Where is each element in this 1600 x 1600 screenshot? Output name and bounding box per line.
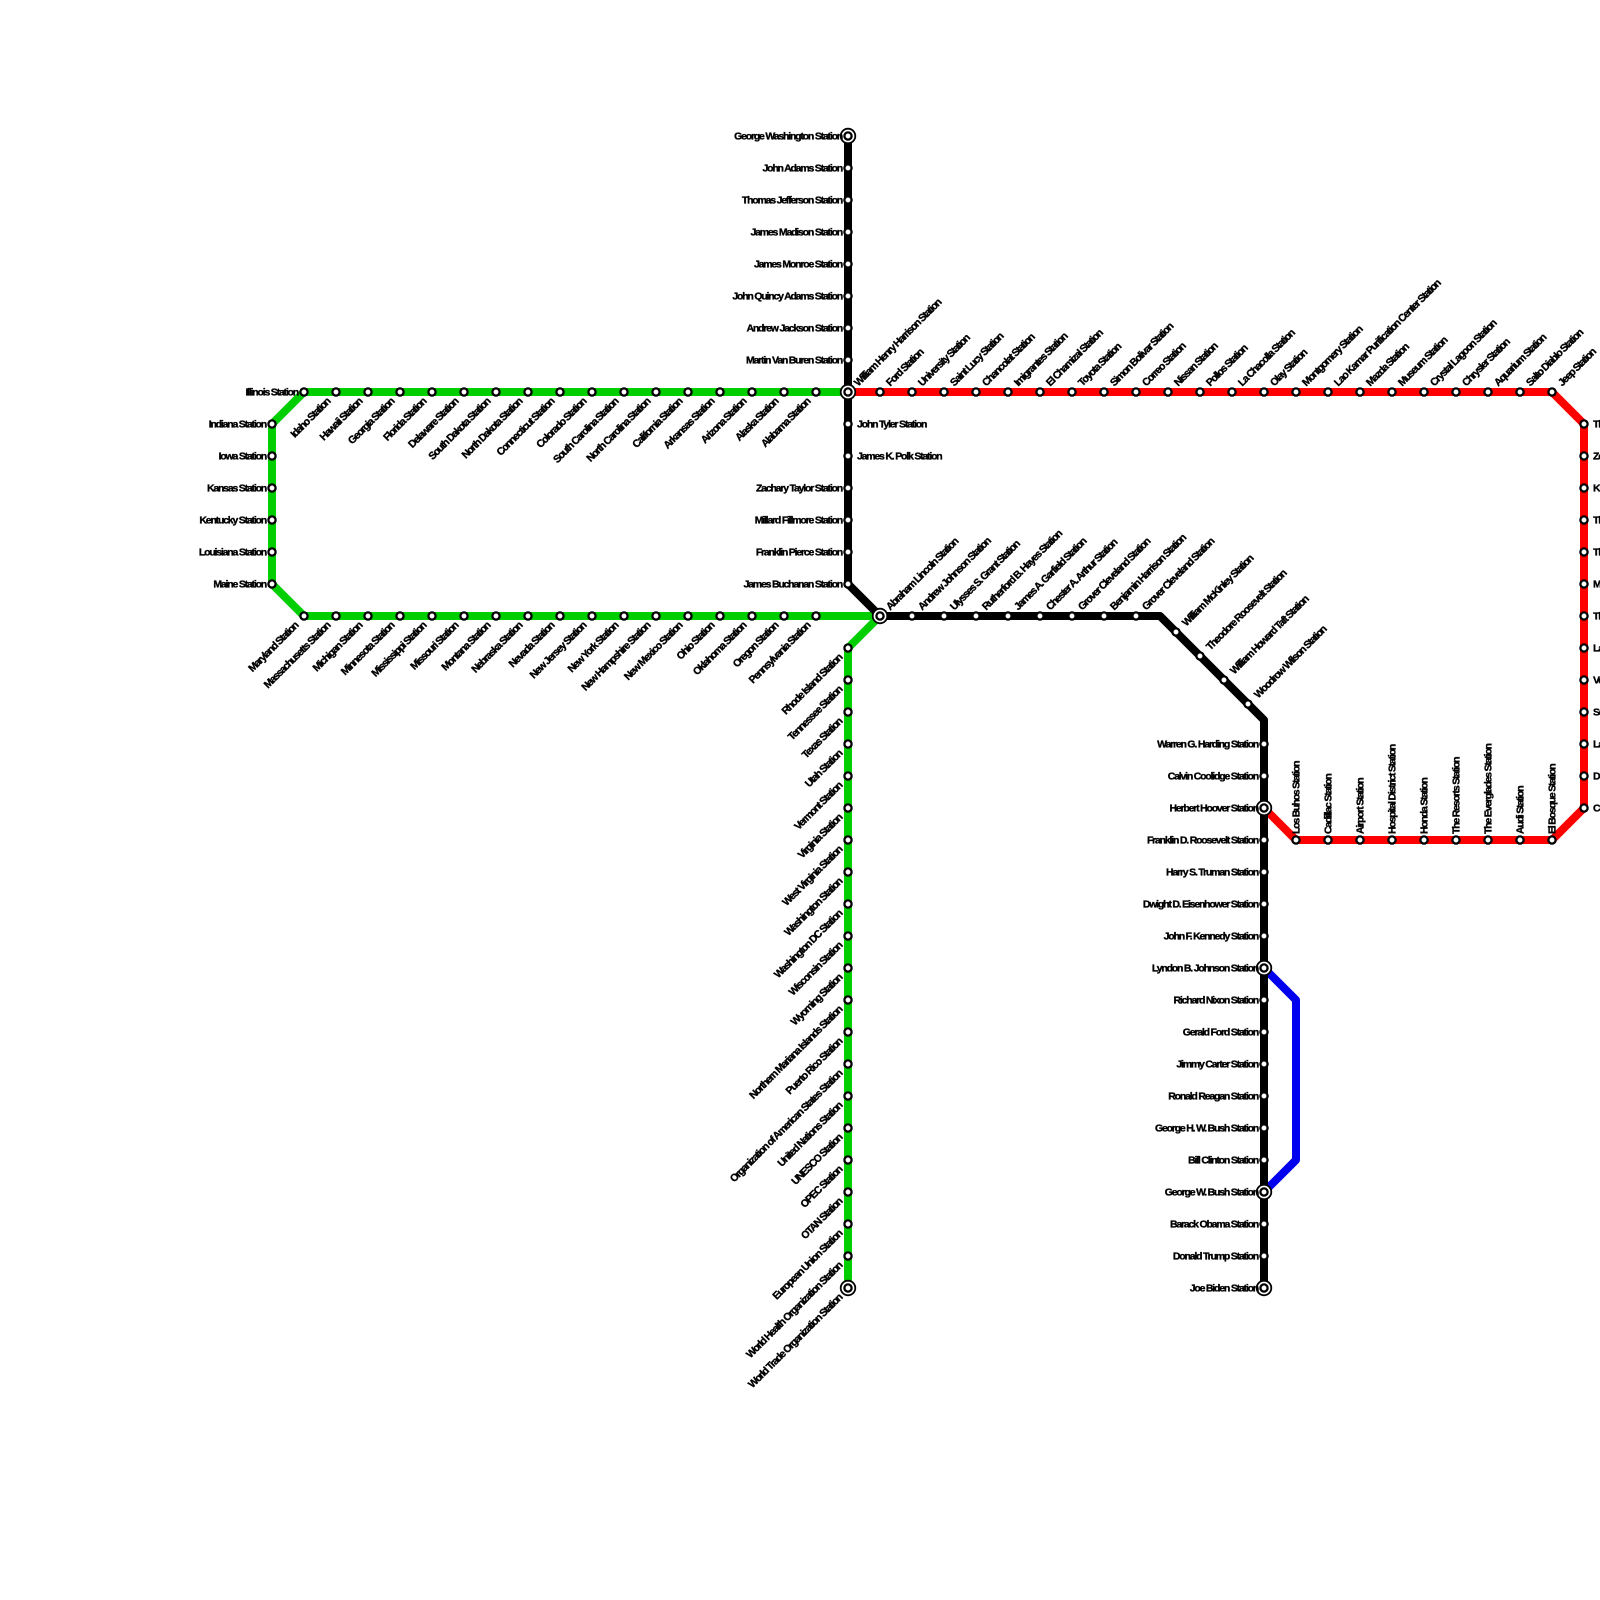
svg-text:Laguna Station: Laguna Station	[1593, 739, 1600, 751]
station New York Station	[620, 612, 627, 619]
station Dwight D. Eisenhower Station	[1260, 900, 1267, 907]
station Harry S. Truman Station	[1260, 868, 1267, 875]
station Massachusetts Station	[332, 612, 339, 619]
svg-text:Honda Station: Honda Station	[1419, 778, 1431, 834]
station Barack Obama Station	[1260, 1220, 1267, 1227]
station Maryland Station	[300, 612, 307, 619]
station Michigan Station	[364, 612, 371, 619]
station West Virginia Station	[844, 836, 851, 843]
station William Howard Taft Station	[1220, 676, 1227, 683]
station Mercado Station	[1580, 580, 1587, 587]
station Rhode Island Station	[844, 644, 851, 651]
station Louisiana Station	[268, 548, 275, 555]
station Pennsylvania Station	[812, 612, 819, 619]
station Chrysler Station	[1452, 388, 1459, 395]
station James Madison Station	[844, 228, 851, 235]
station Laguna Station	[1580, 740, 1587, 747]
svg-text:El Chamizal Station: El Chamizal Station	[1044, 327, 1106, 389]
station Zocalo Station	[1580, 452, 1587, 459]
station Crystal Lagoon Station	[1420, 388, 1427, 395]
svg-text:Louisiana Station: Louisiana Station	[199, 547, 267, 559]
svg-text:Harry S. Truman Station: Harry S. Truman Station	[1166, 867, 1259, 879]
station Tennessee Station	[844, 676, 851, 683]
interchange William Henry Harrison Station	[841, 385, 856, 400]
svg-text:Kansas Station: Kansas Station	[207, 483, 267, 495]
svg-text:The Palms Station: The Palms Station	[1593, 515, 1600, 527]
station Texas Station	[844, 708, 851, 715]
station Mazda Station	[1356, 388, 1363, 395]
svg-text:Lyndon B. Johnson Station: Lyndon B. Johnson Station	[1152, 963, 1259, 975]
station Pollos Station	[1196, 388, 1203, 395]
station Calvin Coolidge Station	[1260, 772, 1267, 779]
station Andrew Johnson Station	[908, 612, 915, 619]
station OTAN Station	[844, 1188, 851, 1195]
svg-text:Millard Fillmore Station: Millard Fillmore Station	[755, 515, 843, 527]
interchange George Washington Station	[841, 129, 856, 144]
svg-text:Donald Trump Station: Donald Trump Station	[1173, 1251, 1259, 1263]
station The Arena Station	[1580, 548, 1587, 555]
svg-text:Illinois Station: Illinois Station	[245, 387, 298, 399]
svg-text:Dorado Station: Dorado Station	[1593, 771, 1600, 783]
svg-text:Thomas Jefferson Station: Thomas Jefferson Station	[742, 195, 843, 207]
station Idaho Station	[332, 388, 339, 395]
station Alabama Station	[812, 388, 819, 395]
station Salto Diablo Station	[1516, 388, 1523, 395]
station California Station	[684, 388, 691, 395]
station Cerrito Station	[1580, 804, 1587, 811]
station New Hampshire Station	[652, 612, 659, 619]
station Correo Station	[1132, 388, 1139, 395]
svg-text:Zachary Taylor Station: Zachary Taylor Station	[756, 483, 843, 495]
blue line (LBJ to G.W. Bush bypass)	[1264, 968, 1296, 1192]
svg-text:Salto Diablo Station: Salto Diablo Station	[1524, 327, 1586, 389]
station Georgia Station	[396, 388, 403, 395]
station Puerto Rico Station	[844, 1028, 851, 1035]
station Imigrantes Station	[1004, 388, 1011, 395]
station Serrano Station	[1580, 708, 1587, 715]
station Warren G. Harding Station	[1260, 740, 1267, 747]
svg-text:Hospital District Station: Hospital District Station	[1387, 744, 1399, 834]
station Dorado Station	[1580, 772, 1587, 779]
station UNESCO Station	[844, 1124, 851, 1131]
station Woodrow Wilson Station	[1244, 700, 1251, 707]
station Lao Kamar Purification Center Station	[1324, 388, 1331, 395]
svg-text:Zocalo Station: Zocalo Station	[1593, 451, 1600, 463]
svg-text:Warren G. Harding Station: Warren G. Harding Station	[1157, 739, 1259, 751]
station Colorado Station	[588, 388, 595, 395]
station Zachary Taylor Station	[844, 484, 851, 491]
svg-text:Puerto Rico Station: Puerto Rico Station	[784, 1035, 846, 1097]
station Jeep Station	[1548, 388, 1555, 395]
station North Carolina Station	[652, 388, 659, 395]
station John Adams Station	[844, 164, 851, 171]
station Oregon Station	[780, 612, 787, 619]
station Ohio Station	[716, 612, 723, 619]
svg-text:Serrano Station: Serrano Station	[1593, 707, 1600, 719]
station The Resorts Station	[1452, 836, 1459, 843]
green line (states loop + international branch)	[272, 392, 880, 1288]
station Minnesota Station	[396, 612, 403, 619]
station Airport Station	[1356, 836, 1363, 843]
station Chester A. Arthur Station	[1036, 612, 1043, 619]
station William McKinley Station	[1172, 628, 1179, 635]
station Toyota Station	[1068, 388, 1075, 395]
station George H. W. Bush Station	[1260, 1124, 1267, 1131]
svg-text:Barack Obama Station: Barack Obama Station	[1170, 1219, 1259, 1231]
svg-text:Andrew Jackson Station: Andrew Jackson Station	[746, 323, 842, 335]
station Hawaii Station	[364, 388, 371, 395]
station Iowa Station	[268, 452, 275, 459]
station Jimmy Carter Station	[1260, 1060, 1267, 1067]
station Kentucky Station	[268, 516, 275, 523]
svg-text:The Canals Station: The Canals Station	[1593, 419, 1600, 431]
station New Jersey Station	[588, 612, 595, 619]
station Chancolat Station	[972, 388, 979, 395]
station La Chacolla Station	[1228, 388, 1235, 395]
station El Chamizal Station	[1036, 388, 1043, 395]
svg-text:George H. W. Bush Station: George H. W. Bush Station	[1155, 1123, 1259, 1135]
svg-text:The Everglades Station: The Everglades Station	[1483, 743, 1495, 834]
station Ulysses S. Grant Station	[940, 612, 947, 619]
svg-text:Jimmy Carter Station: Jimmy Carter Station	[1176, 1059, 1258, 1071]
station Gerald Ford Station	[1260, 1028, 1267, 1035]
svg-text:The Arena Station: The Arena Station	[1593, 547, 1600, 559]
svg-text:Ronald Reagan Station: Ronald Reagan Station	[1168, 1091, 1259, 1103]
station Connecticut Station	[556, 388, 563, 395]
station James Buchanan Station	[844, 580, 851, 587]
station La Paz Station	[1580, 644, 1587, 651]
station Aquarium Station	[1484, 388, 1491, 395]
svg-text:The Resorts Station: The Resorts Station	[1451, 757, 1463, 834]
station Montgomery Station	[1292, 388, 1299, 395]
station John Tyler Station	[844, 420, 851, 427]
svg-text:John Tyler Station: John Tyler Station	[857, 419, 927, 431]
station Andrew Jackson Station	[844, 324, 851, 331]
station Wisconsin Station	[844, 932, 851, 939]
svg-text:Mississippi Station: Mississippi Station	[369, 619, 429, 679]
svg-text:Bill Clinton Station: Bill Clinton Station	[1188, 1155, 1259, 1167]
station Arizona Station	[748, 388, 755, 395]
station Illinois Station	[300, 388, 307, 395]
svg-text:The Forum Station: The Forum Station	[1593, 611, 1600, 623]
station Grover Cleveland Station	[1132, 612, 1139, 619]
station John F. Kennedy Station	[1260, 932, 1267, 939]
svg-text:Calvin Coolidge Station: Calvin Coolidge Station	[1168, 771, 1259, 783]
svg-text:Mercado Station: Mercado Station	[1593, 579, 1600, 591]
station Arkansas Station	[716, 388, 723, 395]
svg-text:James K. Polk Station: James K. Polk Station	[857, 451, 942, 463]
station Volcan Station	[1580, 676, 1587, 683]
station Indiana Station	[268, 420, 275, 427]
svg-text:Franklin Pierce Station: Franklin Pierce Station	[756, 547, 843, 559]
station Virginia Station	[844, 804, 851, 811]
station Wyoming Station	[844, 964, 851, 971]
station Millard Fillmore Station	[844, 516, 851, 523]
station The Palms Station	[1580, 516, 1587, 523]
station Klein Gardens Station	[1580, 484, 1587, 491]
station The Everglades Station	[1484, 836, 1491, 843]
station Northern Mariana Islands Station	[844, 996, 851, 1003]
svg-text:James Buchanan Station: James Buchanan Station	[744, 579, 843, 591]
station Franklin Pierce Station	[844, 548, 851, 555]
station South Dakota Station	[492, 388, 499, 395]
svg-text:Herbert Hoover Station: Herbert Hoover Station	[1169, 803, 1258, 815]
svg-text:James Madison Station: James Madison Station	[751, 227, 843, 239]
svg-text:Dwight D. Eisenhower Station: Dwight D. Eisenhower Station	[1143, 899, 1259, 911]
station Museum Station	[1388, 388, 1395, 395]
svg-text:George W. Bush Station: George W. Bush Station	[1165, 1187, 1259, 1199]
station Ford Station	[876, 388, 883, 395]
station OPEC Station	[844, 1156, 851, 1163]
station Ronald Reagan Station	[1260, 1092, 1267, 1099]
station Benjamin Harrison Station	[1100, 612, 1107, 619]
svg-text:John Adams Station: John Adams Station	[762, 163, 842, 175]
station El Bosque Station	[1548, 836, 1555, 843]
interchange Abraham Lincoln Station	[873, 609, 888, 624]
station John Quincy Adams Station	[844, 292, 851, 299]
svg-text:John F. Kennedy Station: John F. Kennedy Station	[1164, 931, 1259, 943]
svg-text:Klein Gardens Station: Klein Gardens Station	[1593, 483, 1600, 495]
station Los Buhos Station	[1292, 836, 1299, 843]
interchange George W. Bush Station	[1257, 1185, 1272, 1200]
station The Forum Station	[1580, 612, 1587, 619]
station Martin Van Buren Station	[844, 356, 851, 363]
station University Station	[908, 388, 915, 395]
svg-text:Audi Station: Audi Station	[1515, 786, 1527, 834]
station Hospital District Station	[1388, 836, 1395, 843]
svg-text:Washington Station: Washington Station	[782, 875, 845, 938]
svg-text:James Monroe Station: James Monroe Station	[754, 259, 843, 271]
station The Canals Station	[1580, 420, 1587, 427]
svg-text:John Quincy Adams Station: John Quincy Adams Station	[732, 291, 842, 303]
svg-text:Gerald Ford Station: Gerald Ford Station	[1183, 1027, 1259, 1039]
svg-text:Pennsylvania Station: Pennsylvania Station	[747, 619, 814, 686]
station Saint Lucy Station	[940, 388, 947, 395]
station Donald Trump Station	[1260, 1252, 1267, 1259]
svg-text:El Bosque Station: El Bosque Station	[1547, 764, 1559, 834]
station Oklahoma Station	[748, 612, 755, 619]
interchange Joe Biden Station	[1257, 1281, 1272, 1296]
svg-text:La Chacolla Station: La Chacolla Station	[1236, 327, 1298, 389]
station North Dakota Station	[524, 388, 531, 395]
black line (presidents)	[848, 136, 1264, 1288]
station Montana Station	[492, 612, 499, 619]
station Audi Station	[1516, 836, 1523, 843]
svg-text:Martin Van Buren Station: Martin Van Buren Station	[746, 355, 843, 367]
station Nebraska Station	[524, 612, 531, 619]
station Olay Station	[1260, 388, 1267, 395]
station Maine Station	[268, 580, 275, 587]
station Honda Station	[1420, 836, 1427, 843]
station Utah Station	[844, 740, 851, 747]
station Nissan Station	[1164, 388, 1171, 395]
station European Union Station	[844, 1220, 851, 1227]
svg-text:Joe Biden Station: Joe Biden Station	[1190, 1283, 1259, 1295]
svg-text:George Washington Station: George Washington Station	[734, 131, 843, 143]
station World Health Organization Station	[844, 1252, 851, 1259]
svg-text:Kentucky Station: Kentucky Station	[199, 515, 266, 527]
svg-text:Theodore Roosevelt Station: Theodore Roosevelt Station	[1204, 567, 1290, 653]
interchange World Trade Organization Station	[841, 1281, 856, 1296]
red line (east loop)	[848, 392, 1584, 840]
svg-text:Richard Nixon Station: Richard Nixon Station	[1174, 995, 1259, 1007]
station Mississippi Station	[428, 612, 435, 619]
station James Monroe Station	[844, 260, 851, 267]
station United Nations Station	[844, 1092, 851, 1099]
svg-text:La Paz Station: La Paz Station	[1593, 643, 1600, 655]
station Alaska Station	[780, 388, 787, 395]
station Rutherford B. Hayes Station	[972, 612, 979, 619]
station Missouri Station	[460, 612, 467, 619]
station New Mexico Station	[684, 612, 691, 619]
svg-text:New Jersey Station: New Jersey Station	[528, 619, 590, 681]
station Thomas Jefferson Station	[844, 196, 851, 203]
svg-text:Connecticut Station: Connecticut Station	[494, 395, 557, 458]
svg-text:Cadillac Station: Cadillac Station	[1323, 774, 1335, 834]
station Florida Station	[428, 388, 435, 395]
svg-text:Volcan Station: Volcan Station	[1593, 675, 1600, 687]
station Delaware Station	[460, 388, 467, 395]
station Nevada Station	[556, 612, 563, 619]
station James K. Polk Station	[844, 452, 851, 459]
svg-text:Maine Station: Maine Station	[213, 579, 266, 591]
station Washington DC Station	[844, 900, 851, 907]
station James A. Garfield Station	[1004, 612, 1011, 619]
svg-text:William Howard Taft Station: William Howard Taft Station	[1228, 593, 1312, 677]
svg-text:Indiana Station: Indiana Station	[209, 419, 267, 431]
svg-text:Franklin D. Roosevelt Station: Franklin D. Roosevelt Station	[1147, 835, 1259, 847]
svg-text:Airport Station: Airport Station	[1355, 778, 1367, 834]
station Franklin D. Roosevelt Station	[1260, 836, 1267, 843]
svg-text:Cerrito Station: Cerrito Station	[1593, 803, 1600, 815]
svg-text:Iowa Station: Iowa Station	[219, 451, 267, 463]
station Richard Nixon Station	[1260, 996, 1267, 1003]
station Theodore Roosevelt Station	[1196, 652, 1203, 659]
station Kansas Station	[268, 484, 275, 491]
svg-text:Los Buhos Station: Los Buhos Station	[1291, 761, 1303, 834]
station Simon Bolivar Station	[1100, 388, 1107, 395]
station Vermont Station	[844, 772, 851, 779]
station Organization of American States Station	[844, 1060, 851, 1067]
station Washington Station	[844, 868, 851, 875]
interchange Lyndon B. Johnson Station	[1257, 961, 1272, 976]
station South Carolina Station	[620, 388, 627, 395]
station Grover Cleveland Station	[1068, 612, 1075, 619]
station Cadillac Station	[1324, 836, 1331, 843]
station Bill Clinton Station	[1260, 1156, 1267, 1163]
interchange Herbert Hoover Station	[1257, 801, 1272, 816]
